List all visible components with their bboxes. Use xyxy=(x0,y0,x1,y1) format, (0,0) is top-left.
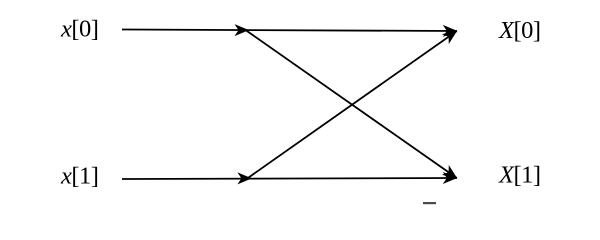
arrowhead mid bottom node xyxy=(237,172,252,184)
svg-text:x[1]: x[1] xyxy=(60,163,98,190)
minus sign (negate lower branch) xyxy=(423,202,436,204)
wire: top horizontal from x[0] to X[0] xyxy=(122,30,457,32)
arrowhead mid top node xyxy=(235,24,250,36)
wire: diagonal bottom node to X[0] xyxy=(247,31,457,179)
arrowhead at X[0] diagonal xyxy=(442,26,461,44)
wire: bottom horizontal from x[1] to X[1] xyxy=(122,178,457,179)
svg-text:x[0]: x[0] xyxy=(60,16,98,43)
svg-text:X[0]: X[0] xyxy=(498,17,541,44)
arrowhead at X[0] horizontal xyxy=(443,25,458,37)
arrowhead at X[1] horizontal xyxy=(443,172,458,184)
wire: diagonal top node to X[1] xyxy=(246,30,457,178)
arrowhead at X[1] diagonal xyxy=(442,165,461,183)
svg-text:X[1]: X[1] xyxy=(498,162,541,189)
